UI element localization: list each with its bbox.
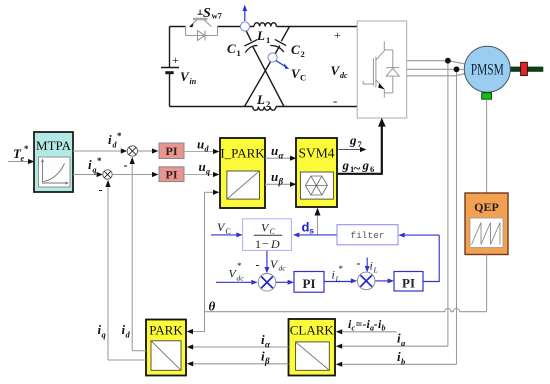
svg-text:PI: PI: [303, 276, 316, 291]
svg-text:g: g: [362, 158, 370, 173]
svg-text:C: C: [270, 227, 276, 236]
svg-text:PARK: PARK: [149, 323, 183, 338]
svg-text:V: V: [331, 63, 341, 78]
svg-text:+: +: [172, 53, 179, 67]
svg-text:L: L: [373, 266, 378, 275]
svg-text:-: -: [124, 158, 128, 172]
svg-text:i: i: [108, 132, 112, 147]
svg-text:L: L: [256, 92, 265, 107]
svg-text:PI: PI: [166, 167, 178, 181]
svg-text:L: L: [256, 28, 265, 43]
svg-text:+: +: [334, 28, 341, 42]
svg-text:-: -: [357, 256, 361, 270]
svg-text:S: S: [203, 6, 211, 21]
svg-text:PMSM: PMSM: [471, 62, 504, 79]
svg-text:SVM4: SVM4: [298, 146, 334, 161]
svg-text:dc: dc: [279, 264, 287, 273]
svg-text:u: u: [199, 159, 206, 174]
svg-text:*: *: [97, 156, 102, 166]
svg-text:C: C: [291, 42, 300, 57]
svg-text:I_PARK: I_PARK: [220, 146, 265, 161]
svg-text:PI: PI: [166, 144, 178, 158]
svg-text:C: C: [226, 227, 231, 236]
svg-text:-: -: [374, 317, 378, 331]
svg-text:b: b: [401, 357, 405, 367]
svg-text:i: i: [332, 268, 335, 282]
svg-text:-: -: [256, 258, 260, 272]
svg-text:q: q: [206, 167, 210, 176]
svg-text:C: C: [300, 73, 306, 83]
svg-text:s: s: [309, 226, 314, 236]
svg-text:C: C: [227, 41, 236, 56]
svg-text:u: u: [197, 137, 204, 152]
svg-text:u: u: [271, 143, 278, 158]
svg-text:in: in: [190, 77, 197, 86]
svg-text:2: 2: [266, 99, 270, 109]
svg-text:u: u: [271, 169, 278, 184]
svg-text:−: −: [262, 237, 269, 251]
svg-text:w7: w7: [212, 11, 223, 21]
svg-text:b: b: [382, 324, 386, 333]
svg-text:6: 6: [370, 164, 374, 174]
svg-text:L: L: [335, 275, 340, 284]
svg-text:MTPA: MTPA: [36, 138, 72, 153]
svg-text:dc: dc: [237, 274, 245, 283]
svg-text:β: β: [264, 356, 270, 366]
svg-text:CLARK: CLARK: [290, 323, 335, 338]
svg-text:-: -: [333, 93, 337, 108]
svg-text:dc: dc: [340, 71, 348, 80]
svg-text:*: *: [339, 264, 344, 274]
svg-text:-: -: [99, 183, 103, 197]
svg-text:*: *: [117, 131, 122, 141]
svg-text:PI: PI: [402, 276, 415, 291]
svg-text:θ: θ: [209, 299, 216, 314]
svg-text:QEP: QEP: [474, 200, 499, 214]
svg-text:D: D: [270, 237, 280, 251]
svg-text:1: 1: [266, 35, 270, 45]
svg-text:2: 2: [301, 49, 305, 59]
svg-text:1: 1: [255, 237, 261, 251]
svg-text:β: β: [278, 177, 284, 187]
svg-text:1: 1: [237, 48, 241, 58]
svg-text:i: i: [88, 157, 92, 172]
svg-text:filter: filter: [350, 230, 384, 241]
svg-text:g: g: [342, 158, 350, 173]
svg-text:q: q: [93, 166, 97, 175]
svg-text:*: *: [237, 261, 242, 271]
svg-text:i: i: [370, 259, 373, 273]
svg-text:g: g: [349, 133, 357, 148]
svg-text:V: V: [180, 69, 190, 84]
svg-text:*: *: [24, 144, 29, 154]
svg-text:=-: =-: [356, 317, 367, 331]
svg-text:e: e: [21, 154, 25, 163]
